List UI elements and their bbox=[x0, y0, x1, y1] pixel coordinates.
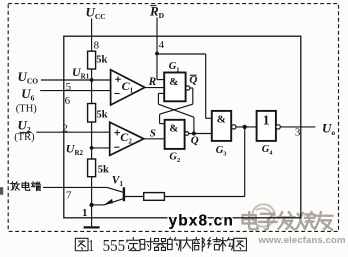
svg-text:(TH): (TH) bbox=[16, 104, 37, 115]
svg-text:&: & bbox=[169, 76, 178, 88]
svg-text:&: & bbox=[169, 122, 178, 134]
svg-text:7: 7 bbox=[66, 189, 72, 201]
svg-text:5k: 5k bbox=[96, 55, 107, 66]
svg-text:Q: Q bbox=[191, 135, 199, 147]
svg-text:www.elecfans.com: www.elecfans.com bbox=[258, 235, 346, 246]
svg-text:5: 5 bbox=[66, 81, 72, 93]
svg-text:1: 1 bbox=[263, 112, 270, 127]
svg-text:4: 4 bbox=[159, 39, 165, 51]
svg-text:1: 1 bbox=[82, 207, 88, 219]
svg-text:R: R bbox=[148, 76, 157, 88]
svg-text:8: 8 bbox=[94, 39, 100, 51]
svg-text:555: 555 bbox=[103, 236, 126, 255]
svg-text:ybx8.cn: ybx8.cn bbox=[169, 212, 234, 229]
svg-text:5k: 5k bbox=[97, 110, 108, 121]
svg-text:1: 1 bbox=[88, 236, 94, 255]
svg-text:2: 2 bbox=[62, 123, 67, 135]
svg-text:5k: 5k bbox=[98, 164, 109, 175]
svg-text:S: S bbox=[150, 128, 156, 140]
svg-text:3: 3 bbox=[295, 127, 301, 139]
svg-text:&: & bbox=[217, 114, 226, 126]
svg-text:Q: Q bbox=[189, 74, 197, 86]
svg-text:6: 6 bbox=[65, 95, 71, 107]
svg-text:(TR): (TR) bbox=[14, 132, 35, 143]
